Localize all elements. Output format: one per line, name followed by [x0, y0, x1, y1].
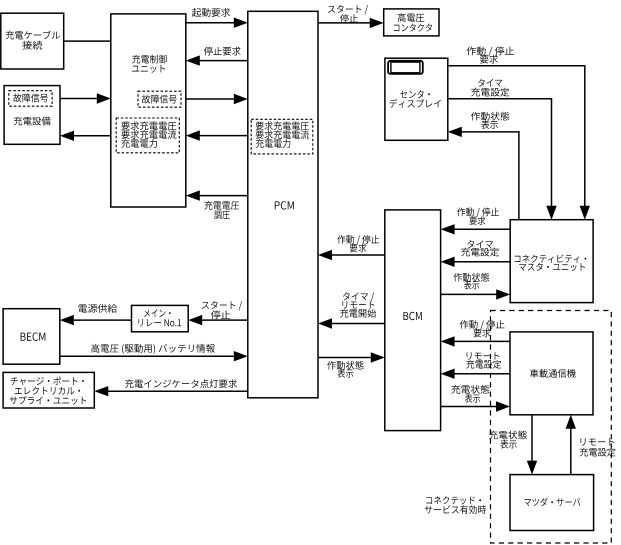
label: operation status (BCM-CMU) line1	[454, 273, 490, 282]
label: connectivity master unit line1	[515, 254, 587, 262]
box: Mazda server (マツダ・サーバ)	[510, 475, 594, 531]
label: start/stop (PCM-relay) line2	[211, 310, 230, 319]
dashed box: fault signal in charging equipment	[9, 91, 52, 107]
label: charging cable line2	[22, 41, 42, 50]
label: timer charge setting (CMU-BCM) line1	[467, 240, 493, 248]
dashed box: requested charge voltage/current/power in PCM	[251, 119, 313, 154]
label: operate/stop request (display-CMU) line1	[467, 47, 514, 57]
label: HV contactor line2	[394, 24, 432, 32]
wire: startup request CCU to PCM	[186, 22, 235, 24]
label: main relay line1	[144, 309, 170, 317]
label: operate/stop request (CMU-BCM) line2	[469, 216, 485, 225]
label: timer charge setting (CMU-BCM) line2	[461, 248, 499, 257]
label: req charge voltage (CCU)	[121, 121, 176, 130]
label: charge voltage regulation line1	[204, 201, 239, 210]
label: charge port line3	[10, 396, 86, 405]
label: charge voltage regulation line2	[214, 211, 229, 219]
label: BCM	[403, 312, 421, 320]
label: req charge voltage (PCM)	[256, 121, 309, 130]
label: center display line1	[400, 90, 430, 98]
label: power supply	[78, 304, 117, 313]
label: charging cable line1	[6, 31, 60, 40]
box: main relay No.1 (メイン・リレー No.1)	[132, 305, 189, 331]
label: remote charge setting (server-TCU) line1	[580, 438, 614, 446]
label: charge setting (display-CMU) line2	[471, 88, 509, 97]
label: charge indicator request	[125, 379, 237, 388]
label: stop request	[204, 47, 241, 56]
label: fault signal (equipment)	[13, 94, 48, 103]
label: PCM	[275, 201, 294, 209]
label: charge control line2	[132, 65, 165, 73]
wire: operation status display CMU to display	[461, 132, 519, 220]
wire: operate/stop request BCM to PCM	[331, 254, 385, 256]
wire: request voltage/current to equipment	[73, 135, 111, 137]
label: operation status (CMU-display) line1	[471, 112, 509, 121]
box: high-voltage contactor (高電圧コンタクタ)	[384, 9, 439, 36]
wire: operate/stop request TCU to BCM	[454, 340, 510, 342]
label: HV contactor line1	[398, 13, 425, 22]
label: remote charge setting (server-TCU) line2	[580, 448, 616, 457]
wire: operation status PCM to BCM	[318, 357, 372, 359]
wire: power supply relay to BECM	[73, 319, 132, 321]
dashed box: requested charge voltage/current/power in CCU	[116, 118, 179, 153]
wire: timer/remote charge start BCM to PCM	[331, 323, 385, 325]
wire: cable box to charge control unit	[64, 40, 111, 42]
label: BECM	[21, 333, 46, 341]
label: operate/stop request (BCM-PCM) line2	[350, 244, 367, 253]
label: charge status (TCU-server) line1	[489, 430, 527, 439]
wire: charge status BCM to TCU	[441, 406, 497, 408]
label: charge port line2	[15, 387, 80, 395]
label: timer/remote line2	[342, 301, 374, 309]
dashed box: fault signal in charge control unit	[138, 91, 181, 107]
wire: fault signal, equipment to CCU	[60, 98, 98, 100]
box: onboard communication device (車載通信機)	[510, 332, 593, 415]
wire: HV battery info BECM to PCM	[60, 355, 235, 357]
label: timer/remote line3	[340, 309, 376, 318]
box: charging equipment (充電設備)	[4, 86, 60, 145]
box: connectivity master unit (コネクティビティ・マスタ・ユニット)	[510, 220, 593, 303]
label: onboard communication device	[530, 369, 576, 378]
wire: start/stop PCM to HV contactor	[318, 22, 371, 24]
label: start/stop top line2	[340, 14, 358, 23]
label: operation status (BCM-CMU) line2	[464, 281, 479, 290]
label: connected service line1	[426, 496, 481, 504]
wire: start/stop PCM to main relay	[202, 319, 248, 321]
box: charge port electrical supply unit	[3, 372, 94, 408]
box: PCM	[248, 11, 318, 398]
label: operate/stop request (CMU-BCM) line1	[457, 208, 499, 218]
wire: fault signal CCU to PCM	[186, 98, 235, 100]
label: charge power (CCU)	[121, 139, 157, 148]
label: operation status (CMU-display) line2	[481, 120, 498, 129]
label: charge status (BCM-TCU) line1	[451, 385, 489, 394]
label: center display line2	[389, 99, 440, 108]
label: start/stop (PCM-relay) line1	[202, 301, 242, 310]
label: operate/stop request (BCM-PCM) line1	[337, 235, 379, 245]
wire: charge indicator request PCM to charge port unit	[108, 390, 248, 392]
wire: remote charge setting Mazda server to TCU	[570, 428, 572, 475]
wire: request charge voltage/current PCM to CCU	[199, 135, 248, 137]
label: timer/remote line1	[343, 292, 374, 301]
icon: display screen symbol	[388, 61, 423, 74]
label: timer (display-CMU) line1	[478, 79, 502, 87]
wire: operation status BCM to CMU	[441, 293, 497, 295]
label: charge port line1	[11, 377, 84, 386]
label: req charge current (CCU)	[121, 130, 176, 139]
label: operate/stop request (TCU-BCM) line2	[474, 329, 491, 338]
label: charge status (TCU-server) line2	[500, 440, 516, 449]
wire: timer charge setting display to CMU	[448, 99, 552, 207]
box: center display (センタ・ディスプレイ)	[385, 58, 448, 140]
label: charge power (PCM)	[256, 139, 291, 148]
label: start/stop top line1	[328, 5, 368, 14]
label: fault signal (CCU)	[142, 95, 177, 104]
label: remote charge setting (TCU-BCM) line1	[467, 352, 500, 360]
box: BECM	[3, 309, 60, 365]
label: req charge current (PCM)	[256, 130, 309, 139]
box: charge control unit (充電制御ユニット)	[111, 14, 186, 207]
label: main relay line2	[138, 319, 181, 327]
wire: operate/stop request CMU to BCM	[454, 228, 510, 230]
dashed region: connected service active (コネクテッド・サービス有効時)	[491, 311, 612, 544]
label: operate/stop request (display-CMU) line2	[480, 55, 498, 64]
wire: charge voltage regulation PCM to CCU	[199, 195, 248, 197]
label: charge control line1	[132, 55, 167, 64]
label: startup request	[192, 8, 230, 17]
wire: operate/stop request display to CMU	[448, 66, 585, 207]
label: remote charge setting (TCU-BCM) line2	[466, 360, 501, 369]
label: HV battery info	[91, 344, 215, 354]
label: connectivity master unit line2	[519, 263, 585, 271]
label: operation status (PCM-BCM) line1	[327, 361, 363, 370]
label: operate/stop request (TCU-BCM) line1	[460, 320, 505, 330]
wire: timer charge setting CMU to BCM	[454, 261, 510, 263]
label: connected service line2	[425, 505, 486, 514]
label: charge status (BCM-TCU) line2	[465, 394, 480, 403]
label: operation status (PCM-BCM) line2	[337, 369, 353, 378]
label: Mazda server	[524, 498, 580, 507]
wire: charge status TCU to Mazda server	[531, 415, 533, 462]
wire: remote charge setting TCU to BCM	[454, 373, 510, 375]
label: charging equipment	[14, 117, 51, 126]
wire: stop request PCM to CCU	[199, 60, 248, 62]
box: BCM	[385, 210, 441, 431]
box: charging cable connected (充電ケーブル接続)	[1, 13, 64, 69]
